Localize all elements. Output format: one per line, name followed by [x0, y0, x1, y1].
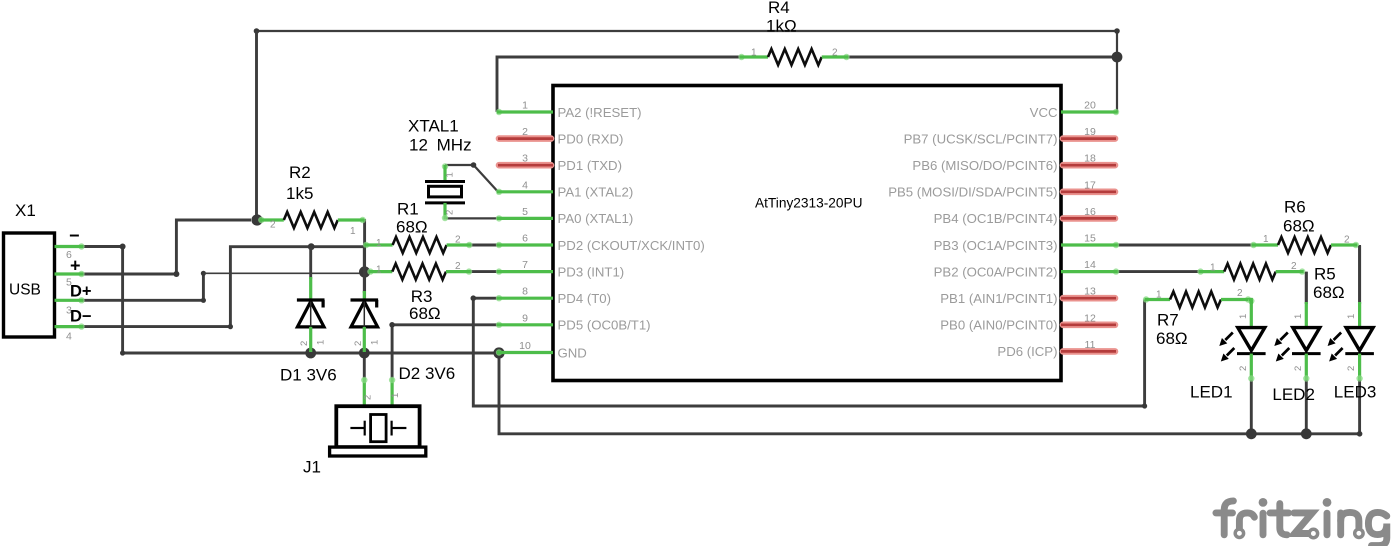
svg-text:2: 2 — [1237, 288, 1243, 299]
pin 1 PA2 (!RESET) — [496, 100, 642, 120]
svg-text:PA2 (!RESET): PA2 (!RESET) — [558, 105, 642, 120]
label LED2 — [1272, 385, 1315, 404]
wire vertical from top rail down to R2 node — [255, 31, 258, 220]
svg-text:68Ω: 68Ω — [396, 218, 428, 237]
svg-text:2: 2 — [832, 48, 838, 59]
svg-text:1: 1 — [390, 393, 401, 398]
pin 15 PB3 (OC1A/PCINT3) — [934, 233, 1120, 253]
svg-text:4: 4 — [66, 331, 72, 343]
wire R4 pin2 to VCC column — [848, 56, 1117, 59]
svg-text:2: 2 — [353, 341, 364, 346]
pin 12 PB0 (AIN0/PCINT0) — [940, 312, 1116, 332]
wire vertical node R2.1-R1.1-R3.1-D2 — [363, 219, 366, 300]
label D2 3V6 — [399, 364, 456, 383]
svg-text:−: − — [69, 226, 80, 246]
svg-text:2: 2 — [1346, 366, 1357, 371]
svg-text:R2: R2 — [289, 163, 311, 182]
label LED3 — [1334, 383, 1377, 402]
svg-text:1: 1 — [751, 48, 757, 59]
svg-text:PD3 (INT1): PD3 (INT1) — [558, 264, 625, 279]
svg-text:PB1 (AIN1/PCINT1): PB1 (AIN1/PCINT1) — [940, 291, 1057, 306]
svg-text:PD5 (OC0B/T1): PD5 (OC0B/T1) — [558, 318, 651, 333]
svg-text:19: 19 — [1084, 126, 1096, 138]
label R6 value — [1283, 217, 1315, 236]
corner LED3 cathode rail — [1357, 431, 1363, 437]
svg-text:LED2: LED2 — [1272, 385, 1315, 404]
pin 9 PD5 (OC0B/T1) — [496, 312, 651, 332]
svg-text:17: 17 — [1084, 179, 1096, 191]
svg-text:D1 3V6: D1 3V6 — [280, 366, 337, 385]
connector X1 USB symbol — [4, 233, 85, 343]
svg-text:1: 1 — [1156, 290, 1162, 301]
svg-text:PB6 (MISO/DO/PCINT6): PB6 (MISO/DO/PCINT6) — [912, 158, 1057, 173]
svg-text:+: + — [70, 256, 81, 276]
svg-text:1: 1 — [350, 226, 356, 237]
svg-text:12: 12 — [1084, 312, 1096, 324]
wire GND rail — [120, 350, 499, 355]
svg-text:14: 14 — [1084, 259, 1096, 271]
label USB pin plus — [70, 256, 81, 276]
resistor R5 68&#937; — [1197, 261, 1305, 280]
junction R3 pin1 node — [359, 266, 370, 277]
junction R2 pin2 / VCC / USB plus node — [251, 214, 262, 225]
junction D2 on GND rail — [359, 348, 370, 359]
label R7 value — [1156, 329, 1188, 348]
svg-text:7: 7 — [522, 259, 528, 271]
LED LED2 symbol — [1274, 272, 1320, 382]
pin 19 PB7 (UCSK/SCL/PCINT7) — [904, 126, 1116, 146]
label R5 — [1314, 265, 1336, 284]
junction GND pin10 — [493, 347, 504, 358]
label R1 — [397, 200, 419, 219]
wire XTAL pin2 to PA0 — [445, 217, 498, 219]
svg-text:PB2 (OC0A/PCINT2): PB2 (OC0A/PCINT2) — [934, 264, 1058, 279]
label X1 — [15, 201, 36, 220]
svg-text:1: 1 — [369, 340, 380, 345]
svg-text:1: 1 — [445, 172, 456, 177]
pin 2 PD0 (RXD) — [498, 126, 623, 146]
svg-text:68Ω: 68Ω — [1283, 217, 1315, 236]
label LED1 — [1190, 383, 1233, 402]
label R2 value 1k5 — [286, 184, 313, 203]
pin 3 PD1 (TXD) — [498, 153, 622, 173]
pin 13 PB1 (AIN1/PCINT1) — [940, 286, 1116, 306]
svg-text:1k5: 1k5 — [286, 184, 313, 203]
svg-text:PD2 (CKOUT/XCK/INT0): PD2 (CKOUT/XCK/INT0) — [558, 238, 705, 253]
svg-text:PD6 (ICP): PD6 (ICP) — [997, 344, 1057, 359]
junction LED2 on cathode rail — [1301, 428, 1312, 439]
wire LED2 cathode down to rail — [1305, 379, 1308, 434]
wire USB D- to R1 node — [83, 247, 365, 330]
zener diode D2 — [351, 248, 381, 353]
svg-text:13: 13 — [1084, 286, 1096, 298]
svg-text:2: 2 — [445, 210, 456, 215]
label R5 value — [1313, 283, 1345, 302]
label R3 value — [409, 304, 441, 323]
svg-text:XTAL1: XTAL1 — [408, 117, 459, 136]
svg-text:2: 2 — [363, 395, 374, 400]
resistor R7 68&#937; — [1143, 288, 1251, 308]
svg-text:R6: R6 — [1284, 198, 1306, 217]
wire R5 pin2 down to LED2 — [1305, 272, 1308, 304]
svg-text:2: 2 — [1238, 366, 1249, 371]
resistor R4 1k&#937; — [738, 48, 849, 66]
svg-text:2: 2 — [1291, 261, 1297, 272]
svg-text:PB5 (MOSI/DI/SDA/PCINT5): PB5 (MOSI/DI/SDA/PCINT5) — [888, 185, 1057, 200]
label XTAL1 — [408, 117, 459, 136]
label D1 3V6 — [280, 366, 337, 385]
svg-text:X1: X1 — [15, 201, 36, 220]
wire LED3 cathode down to rail — [1358, 379, 1361, 434]
svg-text:PA0 (XTAL1): PA0 (XTAL1) — [558, 211, 634, 226]
label R6 — [1284, 198, 1306, 217]
resistor R6 68&#937; — [1250, 234, 1359, 253]
svg-text:PB7 (UCSK/SCL/PCINT7): PB7 (UCSK/SCL/PCINT7) — [904, 131, 1058, 146]
svg-text:2: 2 — [522, 126, 528, 138]
svg-text:2: 2 — [1293, 366, 1304, 371]
op IC U1 AtTiny2313-20PU body — [553, 86, 1061, 381]
label USB pin minus — [69, 226, 80, 246]
svg-text:1: 1 — [1293, 314, 1304, 319]
svg-text:GND: GND — [558, 345, 587, 360]
svg-text:1kΩ: 1kΩ — [766, 17, 797, 36]
junction D1 on D- wire — [308, 243, 315, 250]
LED LED1 symbol — [1219, 298, 1265, 382]
svg-text:1: 1 — [376, 238, 382, 249]
label XTAL1 value 12 MHz — [409, 136, 472, 155]
svg-text:68Ω: 68Ω — [409, 304, 441, 323]
svg-text:1: 1 — [316, 340, 327, 345]
wire GND rail to LED cathode rail — [499, 353, 1360, 434]
svg-text:2: 2 — [455, 235, 461, 246]
label R2 — [289, 163, 311, 182]
svg-text:PD1 (TXD): PD1 (TXD) — [558, 158, 622, 173]
svg-text:18: 18 — [1084, 153, 1096, 165]
pin 10 GND — [496, 340, 587, 360]
label R3 — [411, 287, 433, 306]
svg-text:J1: J1 — [303, 458, 321, 477]
svg-text:9: 9 — [522, 312, 528, 324]
svg-text:PD0 (RXD): PD0 (RXD) — [558, 131, 624, 146]
svg-text:D−: D− — [70, 308, 92, 326]
svg-text:VCC: VCC — [1030, 105, 1058, 120]
wire VCC top rail from R2 node to VCC pin column — [254, 28, 1120, 112]
svg-text:3: 3 — [522, 153, 528, 165]
wire PD5 to J1 pin1 — [389, 322, 497, 380]
svg-text:USB: USB — [9, 282, 41, 299]
resistor R1 68&#937; — [363, 235, 473, 254]
wire USB plus up to R2 node — [83, 220, 251, 277]
jumper J1 symbol — [330, 377, 426, 456]
svg-text:20: 20 — [1084, 100, 1096, 112]
label R1 value — [396, 218, 428, 237]
svg-text:AtTiny2313-20PU: AtTiny2313-20PU — [755, 196, 863, 211]
wire PB2 to R5 — [1118, 270, 1199, 273]
pin 20 VCC — [1030, 100, 1120, 120]
wire USB D+ to R3 node — [83, 271, 365, 303]
svg-text:PB4 (OC1B/PCINT4): PB4 (OC1B/PCINT4) — [934, 211, 1058, 226]
pin 11 PD6 (ICP) — [997, 339, 1116, 359]
zener diode D1 — [297, 248, 327, 353]
label R7 — [1157, 311, 1179, 330]
svg-text:2: 2 — [299, 341, 310, 346]
svg-text:R7: R7 — [1157, 311, 1179, 330]
pin 18 PB6 (MISO/DO/PCINT6) — [912, 153, 1116, 173]
svg-text:LED1: LED1 — [1190, 383, 1233, 402]
svg-text:D+: D+ — [70, 283, 92, 301]
resistor R2 1k5 — [258, 212, 366, 237]
pin 4 PA1 (XTAL2) — [496, 179, 633, 199]
label R4 value — [766, 17, 797, 36]
pin 16 PB4 (OC1B/PCINT4) — [934, 206, 1116, 226]
label USB pin D+ — [70, 283, 92, 301]
junction LED1 on cathode rail — [1246, 428, 1257, 439]
label J1 — [303, 458, 321, 477]
crystal XTAL1 symbol — [425, 163, 465, 221]
junction at R4/VCC column — [1112, 52, 1123, 63]
wire PD4 to R7 (under IC) — [471, 295, 1148, 408]
pin 17 PB5 (MOSI/DI/SDA/PCINT5) — [888, 179, 1116, 199]
svg-text:PB0 (AIN0/PCINT0): PB0 (AIN0/PCINT0) — [940, 318, 1057, 333]
wire J1 pin2 from GND rail — [363, 353, 366, 380]
wire PB3 to R6 — [1118, 244, 1252, 247]
svg-text:PD4 (T0): PD4 (T0) — [558, 291, 612, 306]
svg-text:PB3 (OC1A/PCINT3): PB3 (OC1A/PCINT3) — [934, 238, 1058, 253]
wire R3 pin2 to PD3 — [470, 270, 498, 273]
svg-text:2: 2 — [455, 261, 461, 272]
svg-text:68Ω: 68Ω — [1313, 283, 1345, 302]
label USB pin D- — [70, 308, 92, 326]
pin 14 PB2 (OC0A/PCINT2) — [934, 259, 1120, 279]
svg-text:15: 15 — [1084, 233, 1096, 245]
svg-text:11: 11 — [1085, 339, 1096, 351]
svg-text:R4: R4 — [768, 0, 790, 17]
svg-text:R1: R1 — [397, 200, 419, 219]
svg-text:1: 1 — [1263, 234, 1269, 245]
svg-text:68Ω: 68Ω — [1156, 329, 1188, 348]
svg-text:12 MHz: 12 MHz — [409, 136, 472, 155]
svg-text:10: 10 — [519, 340, 531, 352]
svg-text:1: 1 — [1346, 314, 1357, 319]
svg-text:2: 2 — [270, 220, 276, 231]
label R4 — [768, 0, 790, 17]
svg-text:4: 4 — [522, 179, 528, 191]
svg-text:1: 1 — [1238, 314, 1249, 319]
svg-text:R5: R5 — [1314, 265, 1336, 284]
svg-text:16: 16 — [1084, 206, 1096, 218]
svg-text:8: 8 — [522, 286, 528, 298]
svg-text:PA1 (XTAL2): PA1 (XTAL2) — [558, 185, 634, 200]
svg-text:D2 3V6: D2 3V6 — [399, 364, 456, 383]
svg-text:5: 5 — [522, 206, 528, 218]
label AtTiny2313-20PU — [755, 196, 863, 211]
svg-text:1: 1 — [522, 100, 528, 112]
resistor R3 68&#937; — [367, 261, 472, 280]
LED LED3 symbol — [1328, 246, 1374, 382]
wire USB minus to GND rail — [83, 244, 126, 354]
svg-text:6: 6 — [522, 233, 528, 245]
junction D1 on GND rail — [305, 348, 316, 359]
wire XTAL pin1 to PA1 — [445, 162, 498, 192]
svg-text:1: 1 — [376, 265, 382, 276]
pin 7 PD3 (INT1) — [496, 259, 624, 279]
wire PA2 reset pin to R4 row — [497, 57, 740, 112]
wire LED1 cathode down to rail — [1250, 379, 1253, 434]
pin 5 PA0 (XTAL1) — [496, 206, 633, 226]
wire R6 pin2 down to LED3 — [1358, 245, 1361, 304]
svg-text:1: 1 — [1210, 263, 1216, 274]
wire R1 pin2 to PD2 — [470, 244, 498, 247]
pin 6 PD2 (CKOUT/XCK/INT0) — [496, 233, 705, 253]
svg-text:2: 2 — [1344, 235, 1350, 246]
svg-text:LED3: LED3 — [1334, 383, 1377, 402]
pin 8 PD4 (T0) — [496, 286, 611, 306]
fritzing logo — [1216, 498, 1387, 546]
